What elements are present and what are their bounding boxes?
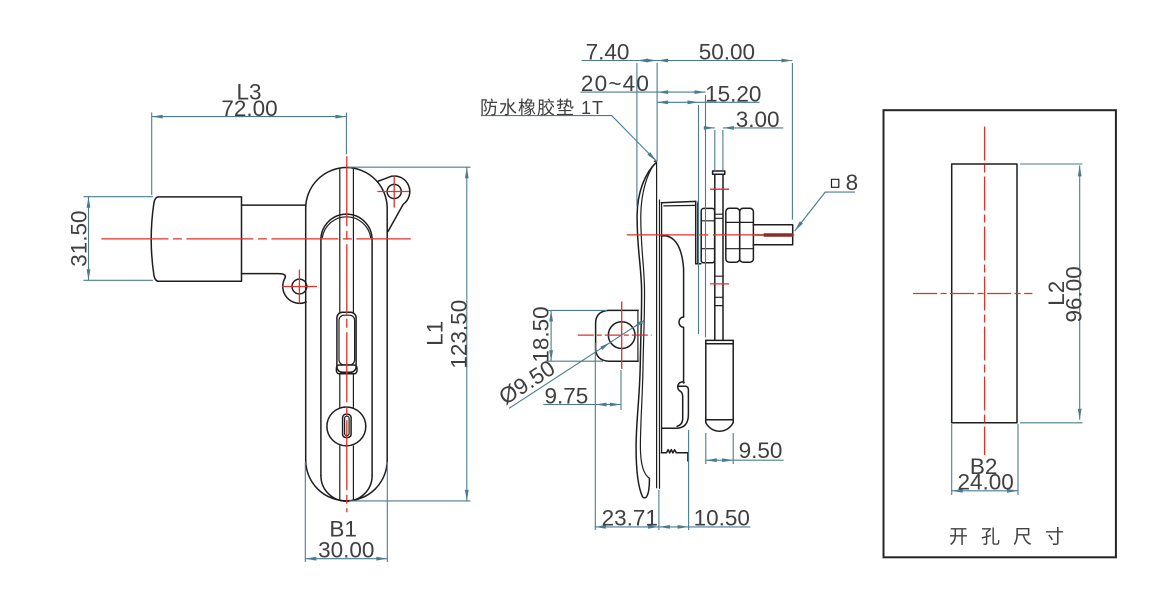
dimension 10.50 [659,430,750,530]
svg-text:开孔尺寸: 开孔尺寸 [949,526,1077,548]
side view: locking rod [715,174,723,340]
side view: bushing cylinder [701,208,714,262]
side view: curved base plate front profile [636,161,656,498]
side view: ear center mark [578,302,652,369]
dimension 3.00 [704,107,784,170]
dimension 7.40 [582,39,793,206]
svg-text:23.71: 23.71 [602,505,658,530]
cutout view: border frame [884,110,1116,557]
side view: locking rod top cap [713,171,725,174]
svg-text:18.50: 18.50 [529,306,554,362]
side view: square shaft [753,225,792,245]
dimension L3 72.00 [152,80,347,196]
svg-text:50.00: 50.00 [699,39,755,64]
svg-text:7.40: 7.40 [586,39,630,64]
svg-text:9.75: 9.75 [545,384,589,409]
side view: mounting ear tab [596,310,639,361]
dimension 23.71 [595,490,751,530]
front view: left mounting ear [283,278,307,303]
svg-text:10.50: 10.50 [694,505,750,530]
svg-text:96.00: 96.00 [1062,266,1087,322]
svg-text:防水橡胶垫 1T: 防水橡胶垫 1T [480,98,604,118]
dimension diameter 9.50 (ear hole) leader [494,320,643,410]
label 防水橡胶垫 1T with leader [480,98,657,162]
dimension L2 96.00 [1020,164,1087,423]
side view: base plate back face [656,162,658,488]
side view: hex nuts [726,208,754,262]
svg-text:24.00: 24.00 [957,469,1013,494]
svg-text:72.00: 72.00 [221,96,277,121]
front view: cylinder lock [327,407,366,446]
side view: body bottom edge with break squiggle [661,450,688,461]
side view: locking cam [706,340,733,431]
svg-text:20~40: 20~40 [581,71,650,96]
cutout view: horizontal red centerline [913,293,1032,295]
front view: left ear center mark [282,270,317,304]
side view: horizontal red centerline [627,234,799,236]
label square-8 with leader [795,170,859,231]
front view: vertical red centerline [346,156,348,512]
front view: horizontal red centerline [101,238,410,240]
side view: shaft keyway dark red overlay [764,233,793,236]
front view: outer stadium body [306,168,388,501]
side view: rubber gasket line [659,200,661,489]
dimension 18.50 [529,306,608,362]
front view: handle neck [242,205,306,278]
svg-text:3.00: 3.00 [736,107,780,132]
side view: body front face line [661,203,663,453]
dimension B1 30.00 [305,462,387,563]
dimension B2 24.00 [952,424,1018,495]
cutout view: vertical red centerline [984,127,986,456]
side view: body flange [661,201,701,264]
svg-text:9.50: 9.50 [739,438,783,463]
side view: body mid profile with spring notch [661,236,683,383]
dimension 50.00 [657,39,792,219]
dimension L1 123.50 [348,167,472,501]
front view: inner recessed channel [321,214,372,501]
svg-text:123.50: 123.50 [447,300,472,369]
dimension 9.75 [543,343,621,530]
dimension 31.50 [67,197,154,281]
front view: top-right mounting ear [378,176,410,232]
dimension 20~40 [580,71,705,337]
side view: rod red tick lower [710,283,729,285]
svg-text:15.20: 15.20 [705,81,761,106]
svg-text:L1: L1 [423,321,448,346]
front view: handle knob [151,197,241,281]
cutout view: hole rectangle [952,164,1017,423]
front view: handle grip edge lines [340,168,354,500]
dimension 9.50 (cam width) [706,433,784,464]
front view: push button [336,312,357,374]
side view: rod red tick upper [710,188,729,190]
svg-text:31.50: 31.50 [67,210,92,266]
svg-text:30.00: 30.00 [318,538,374,563]
front view: right ear center mark [377,176,409,208]
svg-text:8: 8 [846,170,859,195]
dimension 15.20 [657,81,761,334]
side view: body hook profile [662,382,689,428]
